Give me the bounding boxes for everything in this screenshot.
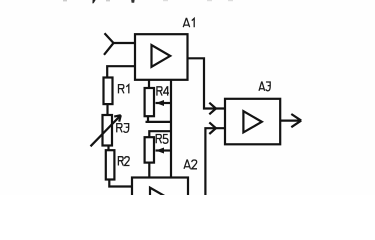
cut-off text fragment at top edge bbox=[63, 0, 233, 3]
wire R5 top connector bbox=[149, 131, 171, 137]
resistor R2 bbox=[106, 150, 115, 179]
input fork symbol bbox=[104, 33, 114, 55]
wire A2 output to A3 input 2 bbox=[205, 128, 225, 195]
label R1 bbox=[118, 85, 128, 94]
wire A3 output bbox=[280, 119, 301, 121]
label R4 bbox=[157, 87, 169, 96]
label A3 bbox=[259, 82, 270, 91]
label R5 bbox=[156, 135, 168, 144]
label A1 bbox=[183, 18, 194, 27]
wire bracket bottom line bbox=[146, 121, 172, 123]
label A2 bbox=[184, 160, 197, 169]
resistor R5 (preset, wiper arrow) bbox=[145, 137, 171, 162]
arrow into A3 input 1 bbox=[209, 103, 216, 115]
wire R3 to R2 bbox=[107, 146, 109, 151]
arrow into A3 input 2 bbox=[209, 122, 216, 134]
op-amp A3 bbox=[225, 99, 280, 145]
wire R4 bottom lead bbox=[147, 116, 149, 122]
label R2 bbox=[118, 157, 129, 166]
wire R2 to A2 input bbox=[109, 180, 132, 187]
op-amp A1 bbox=[135, 34, 188, 80]
wire A1 feedback to R1 bbox=[107, 66, 135, 77]
wire wiper bus (right vertical A1 to A2) bbox=[170, 80, 172, 178]
resistor R4 (preset, wiper arrow) bbox=[145, 88, 171, 116]
resistor R3 (variable, diagonal arrow) bbox=[91, 115, 121, 146]
label R3 bbox=[117, 124, 129, 133]
wire R5 bottom to A2 bbox=[148, 163, 150, 178]
wire R1 to R3 bbox=[106, 105, 108, 116]
wire A1 output to A3 input 1 bbox=[188, 58, 226, 108]
wire A1 to R4 top bbox=[148, 80, 150, 88]
resistor R1 bbox=[104, 78, 113, 105]
op-amp A2 bbox=[132, 178, 188, 224]
wire input to A1 bbox=[114, 42, 136, 44]
arrow A3 output bbox=[291, 114, 301, 127]
